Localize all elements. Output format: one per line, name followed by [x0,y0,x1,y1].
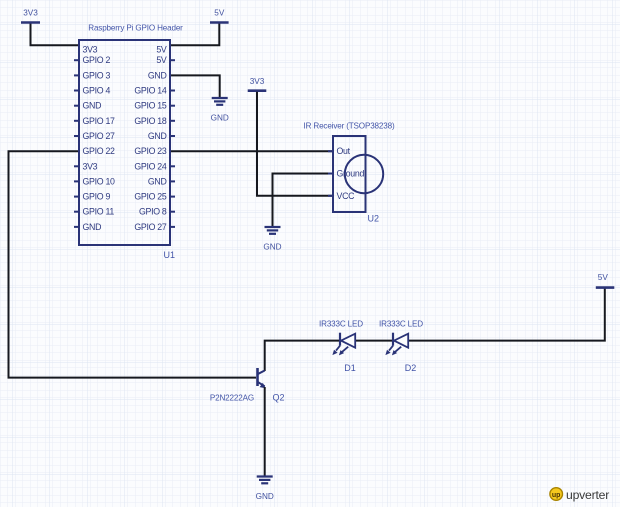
svg-text:GND: GND [211,114,229,123]
svg-text:up: up [552,492,561,499]
power 5V (right) [596,273,615,288]
wire 5V to U1 pin 5V [169,23,219,45]
power 5V (top) [210,9,229,23]
svg-text:GPIO 22: GPIO 22 [83,146,116,156]
wire 3V3 to U1 pin 3V3 [31,23,80,45]
svg-text:GND: GND [263,243,281,252]
svg-text:3V3: 3V3 [83,44,98,54]
svg-text:upverter: upverter [566,488,609,502]
wire U1 GPIO23 to U2 Out [169,150,333,152]
svg-text:VCC: VCC [337,191,356,201]
svg-text:GPIO 4: GPIO 4 [83,86,111,96]
svg-text:IR Receiver (TSOP38238): IR Receiver (TSOP38238) [303,122,394,131]
wire U1 GND pin to ground [169,75,220,97]
wire U1 GPIO22 to Q2 base [9,151,257,377]
svg-text:GND: GND [83,101,102,111]
svg-text:GPIO 10: GPIO 10 [83,176,116,186]
wire Q2 emitter to ground [264,387,266,476]
LED D1 IR333C [319,320,363,374]
svg-text:GPIO 2: GPIO 2 [83,55,111,65]
wire U2 Ground to ground [273,174,334,227]
svg-text:Ground: Ground [337,169,365,179]
svg-text:GPIO 25: GPIO 25 [134,192,167,202]
svg-text:D2: D2 [405,363,417,373]
svg-text:3V3: 3V3 [83,161,98,171]
ground GND (right of U1) [211,98,229,123]
svg-text:GND: GND [148,176,167,186]
wire Q2 collector to LEDs to 5V [265,288,605,371]
transistor Q2 P2N2222AG [210,368,285,403]
svg-text:GPIO 3: GPIO 3 [83,70,111,80]
svg-text:U1: U1 [163,250,175,260]
svg-text:GND: GND [83,222,102,232]
svg-text:GPIO 27: GPIO 27 [83,131,116,141]
svg-text:GND: GND [148,131,167,141]
svg-text:5V: 5V [598,273,609,282]
svg-text:IR333C LED: IR333C LED [379,320,423,329]
LED D2 IR333C [379,320,423,374]
svg-text:GPIO 24: GPIO 24 [134,161,167,171]
svg-text:GND: GND [148,70,167,80]
power 3V3 (above U2) [248,77,267,91]
svg-text:U2: U2 [368,214,380,224]
svg-text:Q2: Q2 [273,393,285,403]
svg-text:5V: 5V [156,55,167,65]
svg-text:Out: Out [337,146,351,156]
svg-text:GPIO 17: GPIO 17 [83,116,116,126]
svg-text:GPIO 18: GPIO 18 [134,116,167,126]
svg-text:GND: GND [256,492,274,501]
svg-text:GPIO 15: GPIO 15 [134,101,167,111]
svg-text:5V: 5V [214,9,225,18]
svg-text:Raspberry Pi GPIO Header: Raspberry Pi GPIO Header [88,24,183,33]
svg-text:GPIO 9: GPIO 9 [83,192,111,202]
Upverter logo [550,488,609,502]
svg-text:P2N2222AG: P2N2222AG [210,394,254,403]
svg-text:D1: D1 [344,363,356,373]
svg-text:3V3: 3V3 [23,9,38,18]
power 3V3 (top left) [21,9,40,23]
svg-text:GPIO 8: GPIO 8 [139,207,167,217]
IC U1 Raspberry Pi GPIO Header [74,24,183,261]
svg-text:5V: 5V [156,44,167,54]
svg-text:GPIO 14: GPIO 14 [134,86,167,96]
svg-text:3V3: 3V3 [250,77,265,86]
svg-text:IR333C LED: IR333C LED [319,320,363,329]
ground GND (below Q2) [256,477,274,502]
svg-text:GPIO 23: GPIO 23 [134,146,167,156]
svg-text:GPIO 11: GPIO 11 [83,207,115,217]
wire 3V3 to U2 VCC [257,92,333,196]
IC U2 IR Receiver (TSOP38238) [303,122,394,224]
svg-text:GPIO 27: GPIO 27 [134,222,167,232]
ground GND (below U2) [263,227,281,252]
